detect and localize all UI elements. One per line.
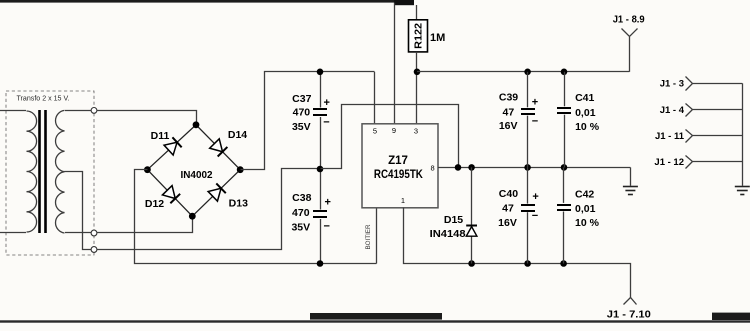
svg-text:+: + [532,96,538,108]
svg-text:D12: D12 [145,198,164,210]
svg-text:35V: 35V [291,222,310,234]
svg-text:470: 470 [293,107,311,119]
svg-text:470: 470 [292,207,310,219]
svg-text:IN4148: IN4148 [430,228,466,240]
svg-text:D11: D11 [151,130,170,142]
svg-text:J1 - 4: J1 - 4 [660,105,685,116]
svg-text:J1 - 8.9: J1 - 8.9 [613,15,645,26]
svg-text:−: − [532,116,538,128]
svg-text:0,01: 0,01 [575,107,596,119]
svg-text:16V: 16V [499,120,518,132]
svg-text:C38: C38 [292,192,311,204]
svg-text:R122: R122 [414,22,425,48]
svg-text:−: − [323,221,329,233]
svg-text:−: − [532,210,538,222]
svg-text:BOITIER: BOITIER [365,224,372,249]
svg-text:C39: C39 [499,92,518,104]
svg-text:5: 5 [373,127,377,136]
svg-text:−: − [323,117,329,129]
svg-text:D14: D14 [228,129,247,141]
svg-text:C37: C37 [292,93,311,105]
svg-text:J1 - 7.10: J1 - 7.10 [607,310,651,321]
svg-text:J1 - 3: J1 - 3 [660,79,684,90]
svg-text:0,01: 0,01 [575,203,596,215]
svg-text:IN4002: IN4002 [181,169,213,181]
svg-text:C41: C41 [575,92,594,104]
svg-text:+: + [323,97,329,109]
svg-text:+: + [324,197,330,209]
svg-text:D15: D15 [444,214,463,226]
svg-text:1M: 1M [430,32,445,44]
svg-text:Z17: Z17 [388,155,408,167]
svg-text:J1 - 11: J1 - 11 [655,131,685,142]
svg-text:+: + [532,191,538,203]
svg-text:3: 3 [414,126,418,135]
svg-text:47: 47 [502,203,514,215]
svg-text:1: 1 [401,196,405,205]
svg-text:9: 9 [392,126,396,135]
svg-text:D13: D13 [229,198,248,210]
svg-text:RC4195TK: RC4195TK [374,169,424,181]
svg-text:C42: C42 [575,188,594,200]
svg-text:10 %: 10 % [575,217,600,229]
svg-text:47: 47 [503,106,515,118]
svg-text:16V: 16V [498,217,517,229]
svg-text:J1 - 12: J1 - 12 [654,157,684,168]
svg-text:8: 8 [431,163,435,172]
svg-text:C40: C40 [499,188,518,200]
svg-text:10 %: 10 % [575,121,600,133]
svg-text:35V: 35V [292,121,311,133]
svg-text:Transfo 2 x 15 V.: Transfo 2 x 15 V. [17,94,70,103]
